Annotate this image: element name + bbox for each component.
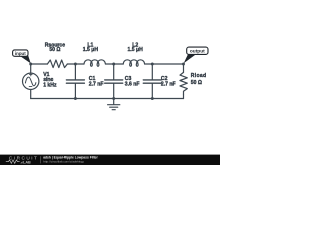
svg-text:Rload: Rload [191, 73, 207, 79]
footer logo arrow [20, 161, 22, 163]
capacitor C1 plates [66, 80, 84, 83]
junction node C1 top [74, 63, 77, 66]
svg-text:output: output [190, 49, 205, 55]
footer divider [40, 156, 42, 163]
junction node output [182, 63, 185, 66]
junction node C1 bottom [74, 97, 77, 100]
junction node input [29, 63, 32, 66]
V1 sine symbol [25, 77, 36, 86]
capacitor C2 stems [151, 64, 153, 99]
source V1 circle [23, 73, 39, 89]
inductor L1 [84, 60, 105, 67]
svg-text:1.5 μH: 1.5 μH [83, 47, 99, 53]
svg-text:50 Ω: 50 Ω [49, 47, 60, 53]
capacitor C1 stems [74, 64, 76, 99]
junction node C3 top [112, 63, 115, 66]
wire bottom rail up to V1 [30, 90, 32, 99]
svg-text:2.7 nF: 2.7 nF [89, 82, 104, 88]
junction node C2 top [151, 63, 154, 66]
resistor Rload [180, 72, 187, 94]
flag output wedge [184, 54, 196, 63]
svg-text:http://circuitlab.com/c/adshkq: http://circuitlab.com/c/adshkqg [43, 159, 84, 163]
flag output box [187, 47, 208, 54]
svg-text:1.5 μH: 1.5 μH [128, 47, 144, 53]
V1 plus sign [30, 73, 33, 76]
capacitor C2 plates [143, 80, 161, 83]
footer bar [0, 155, 220, 165]
wire Rload to bottom rail [183, 94, 185, 98]
ground symbol [108, 99, 120, 110]
wire V1 to input node [30, 64, 32, 73]
flag input wedge [20, 55, 31, 63]
bottom rail wire [31, 98, 184, 100]
svg-text:50 Ω: 50 Ω [191, 80, 202, 86]
wire input node to Rsource [31, 63, 48, 65]
flag input box [13, 50, 28, 56]
svg-text:LAB: LAB [23, 161, 31, 165]
svg-text:1 kHz: 1 kHz [43, 83, 57, 89]
wire L2 to output corner [145, 63, 184, 65]
wire Rsource to L1 [67, 63, 84, 65]
svg-text:input: input [15, 51, 26, 56]
wire output corner down to Rload [183, 64, 185, 72]
footer logo resistor zigzag [6, 160, 20, 163]
capacitor C3 plates [105, 80, 123, 83]
capacitor C3 stems [113, 64, 115, 99]
resistor Rsource [47, 60, 67, 68]
svg-text:3.6 nF: 3.6 nF [125, 82, 140, 88]
svg-text:2.7 nF: 2.7 nF [161, 82, 176, 88]
inductor L2 [123, 60, 144, 67]
junction node ground [112, 97, 115, 100]
junction node C2 bottom [151, 97, 154, 100]
wire L1 to L2 [106, 63, 124, 65]
V1 minus sign [29, 86, 32, 88]
